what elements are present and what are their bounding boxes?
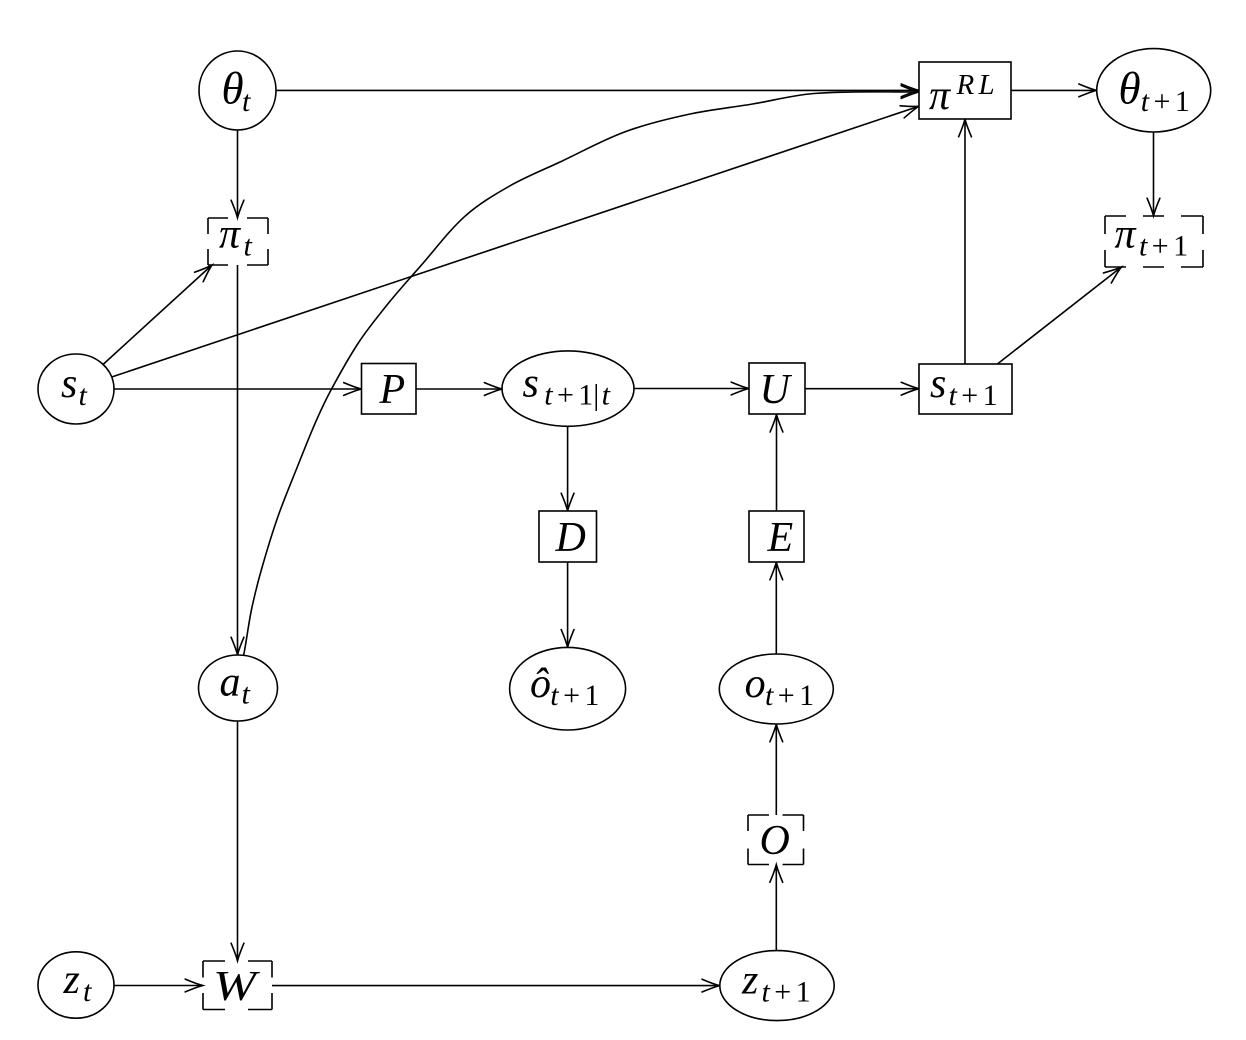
svg-text:O: O [760, 818, 790, 864]
wire W to z_t+1 [272, 985, 720, 987]
node pi_t (dashed) [208, 218, 268, 265]
wire s_t+1|t to D [567, 426, 569, 511]
svg-text:E: E [767, 515, 794, 561]
wire theta_t+1 to pi_t+1 [1153, 132, 1155, 216]
wire O to o_t+1 [775, 724, 777, 815]
node s_t [38, 354, 114, 424]
wire piRL to theta_t+1 [1011, 89, 1097, 91]
wire a_t to piRL (curved) [244, 92, 919, 655]
wire s_t to piRL [112, 106, 919, 377]
node W (dashed) [203, 961, 272, 1010]
node z_t [38, 952, 114, 1018]
wire a_t to W [237, 721, 239, 961]
wire P to s_t+1|t [416, 388, 502, 390]
node U [749, 363, 805, 414]
svg-text:πt: πt [219, 212, 253, 263]
svg-text:P: P [379, 367, 406, 413]
wire E to U [776, 414, 778, 511]
node O (dashed) [748, 815, 804, 865]
node o_t+1 [719, 654, 833, 724]
node a_t [199, 655, 278, 721]
wire s_t to pi_t [103, 265, 212, 365]
wire U to s_t+1 [805, 388, 919, 390]
node o-hat_t+1 [510, 647, 626, 730]
wire s_t to P [114, 388, 362, 390]
wire theta_t to piRL [276, 89, 919, 91]
node s_t+1 [919, 364, 1012, 414]
node D [539, 511, 597, 562]
node theta_t [199, 51, 276, 130]
wire z_t+1 to O [775, 865, 777, 951]
svg-text:U: U [760, 367, 793, 413]
wire D to o-hat_t+1 [567, 562, 569, 647]
wire s_t+1 to pi_t+1 [997, 267, 1121, 364]
node P [362, 364, 417, 415]
wire o_t+1 to E [775, 562, 777, 654]
svg-text:πt+1: πt+1 [1115, 212, 1189, 263]
node E [749, 511, 804, 562]
svg-text:W: W [213, 964, 261, 1010]
node pi_t+1 (dashed) [1105, 216, 1203, 267]
node z_t+1 [720, 951, 834, 1021]
wire s_t+1|t to U [634, 388, 749, 390]
node theta_t+1 [1097, 49, 1211, 132]
wire pi_t to a_t [237, 265, 239, 655]
node piRL [919, 62, 1011, 119]
node s_t+1|t [502, 351, 634, 426]
svg-text:D: D [555, 515, 586, 561]
wire z_t to W [114, 985, 203, 987]
wire s_t+1 to piRL [964, 119, 966, 364]
wire theta_t to pi_t [237, 130, 239, 218]
